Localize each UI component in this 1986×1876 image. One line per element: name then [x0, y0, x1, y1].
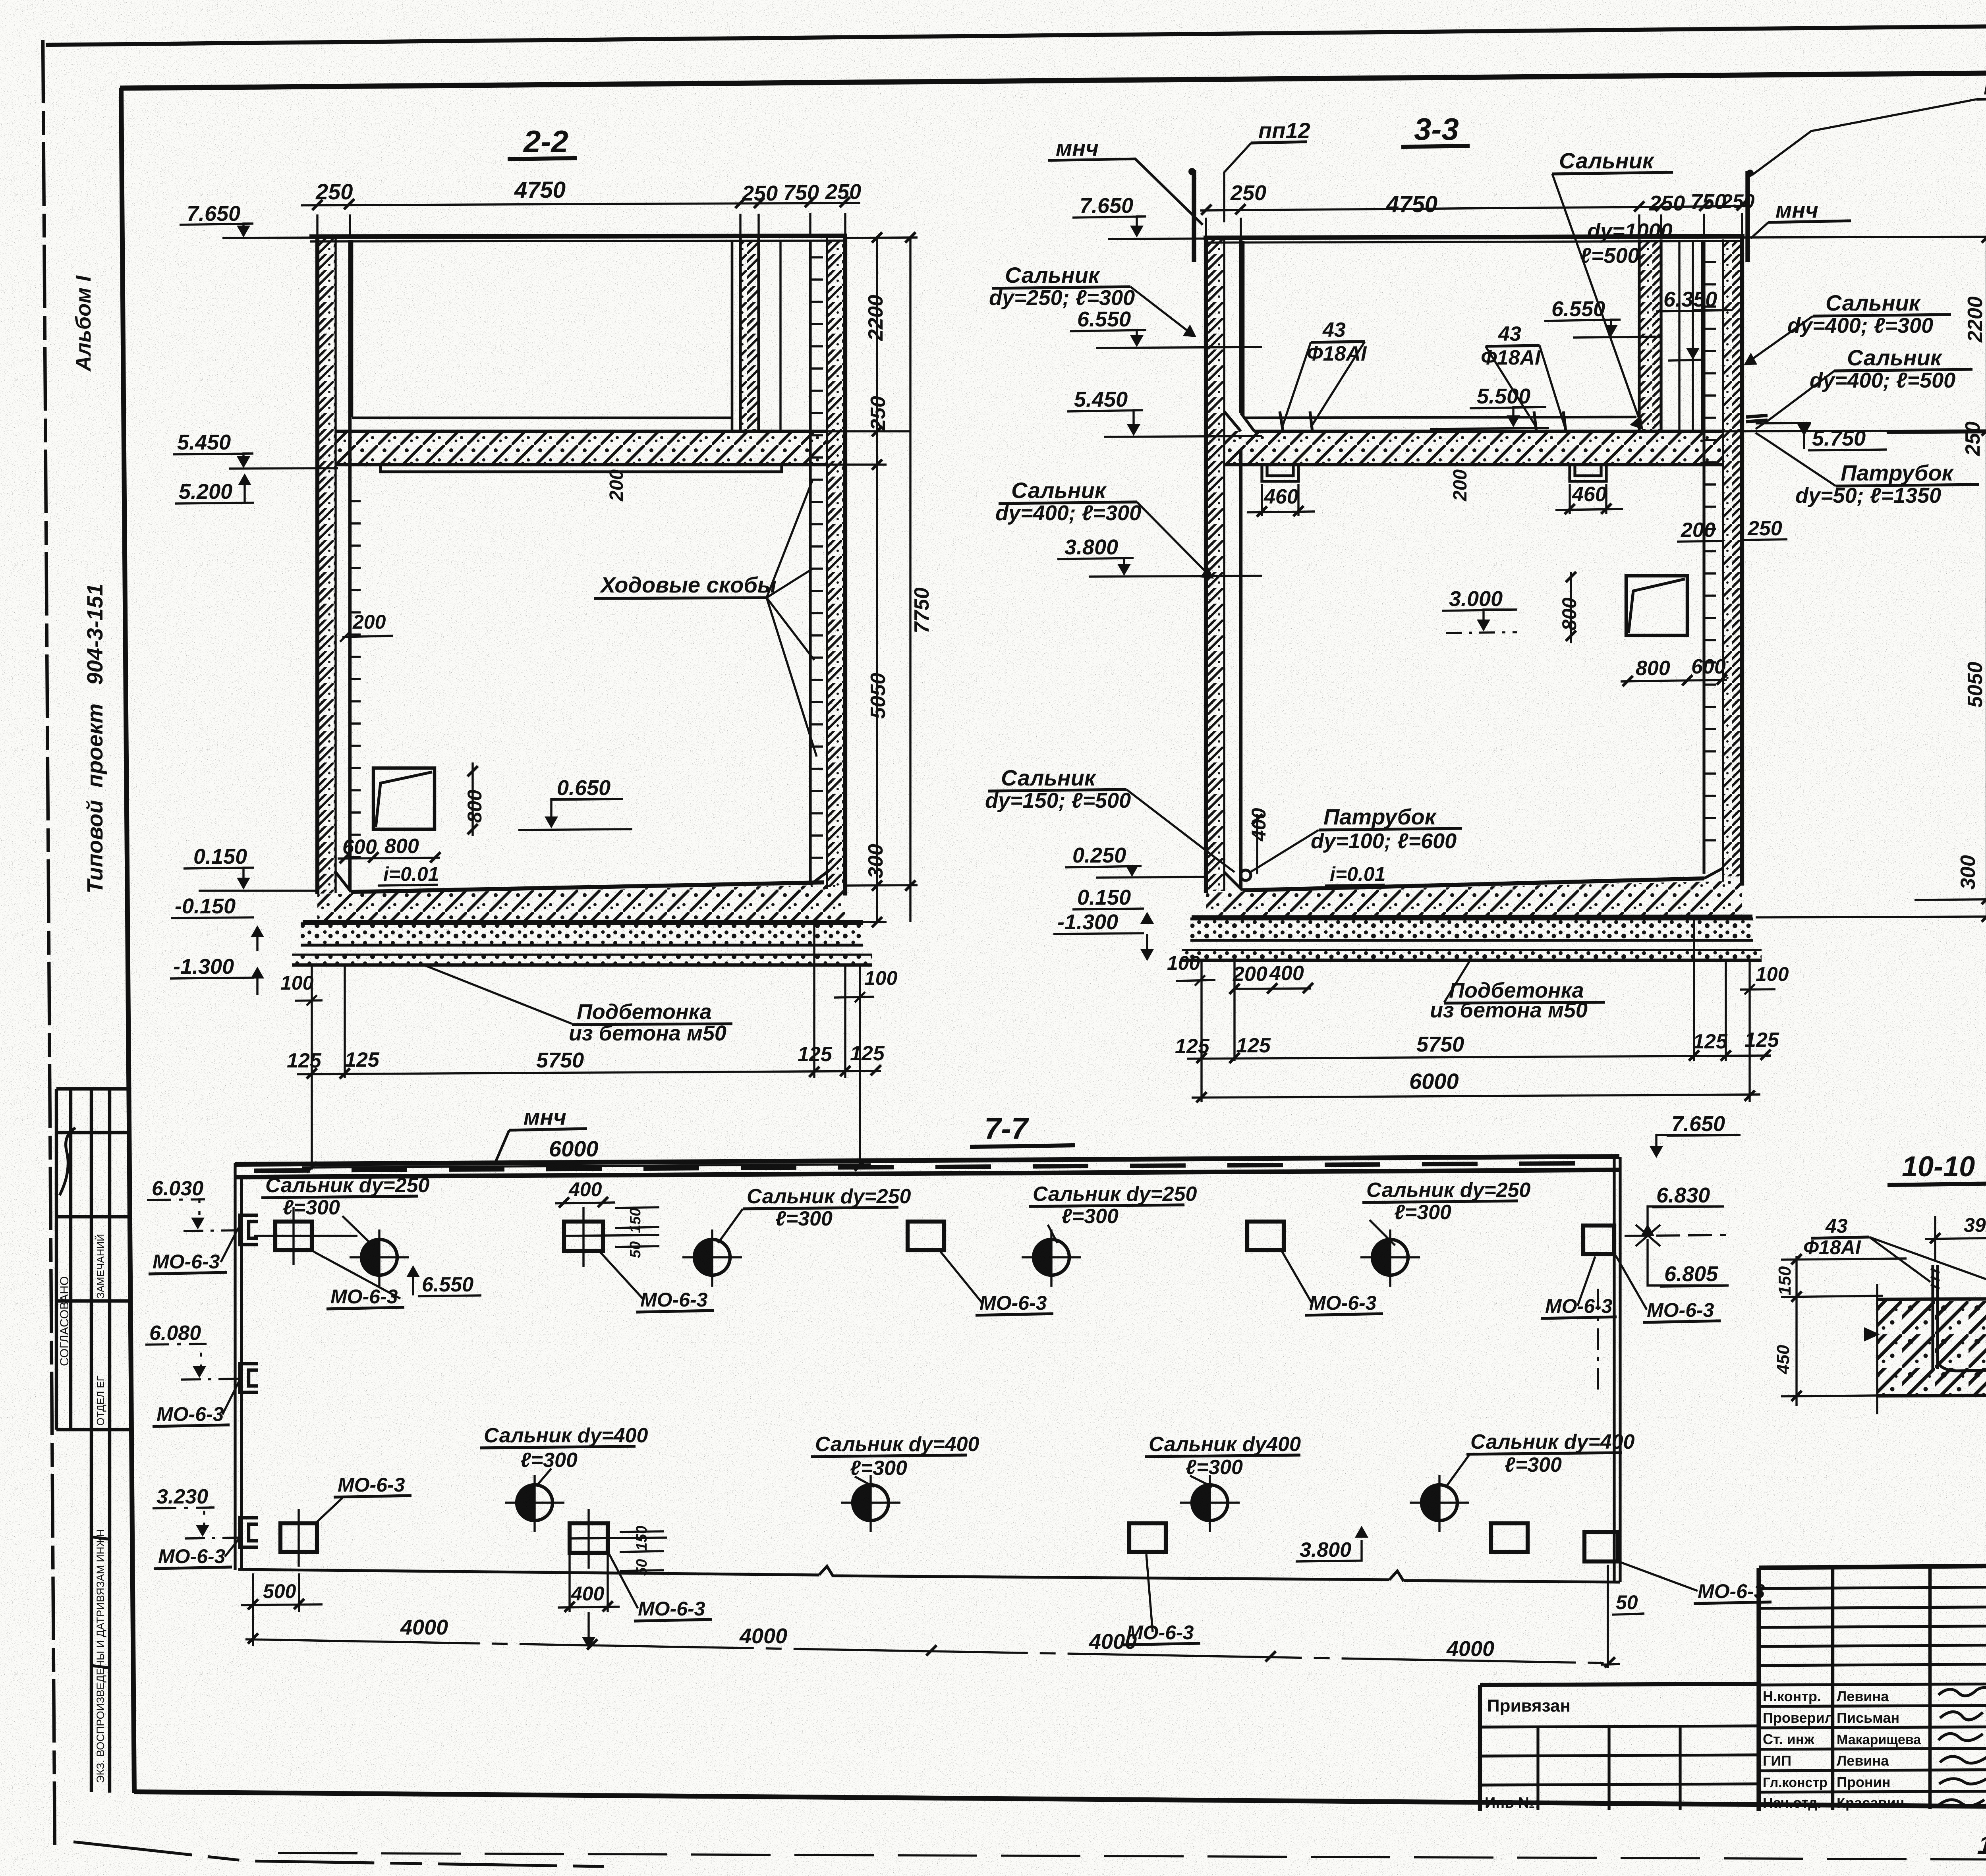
slab: [1877, 1299, 1986, 1396]
right edge square top: [1583, 1226, 1614, 1254]
left embed bracket 3: [240, 1518, 258, 1547]
detail vertical dim 800 rotated: [1570, 572, 1572, 643]
tank roof line: [1204, 236, 1745, 238]
lean concrete layer 1: [1190, 919, 1753, 940]
top row circles: [361, 1239, 397, 1275]
inner frame left line: [121, 88, 134, 1793]
left wall rung ticks: [350, 501, 361, 857]
MNCh pipe mark: [1192, 170, 1196, 262]
right wall: [827, 240, 845, 887]
bottom slab: [317, 885, 845, 921]
bottom slab: [1206, 881, 1742, 916]
left embed bracket 1: [240, 1215, 258, 1245]
signature squiggle: [60, 1128, 75, 1195]
right vertical dim line 1: [876, 237, 878, 922]
right wall ladder rungs: [1705, 262, 1716, 840]
pipe line in shaft: [779, 240, 781, 431]
sloped floor line: [1242, 878, 1704, 890]
middle table columns: [1833, 1568, 1986, 1810]
sheet outer border bottom edge (faint): [278, 1853, 1986, 1862]
inner partition wall: [740, 240, 759, 431]
elevation 5.750 right: [1797, 424, 1811, 436]
double tick at wall right: [1746, 415, 1768, 422]
embed pocket left: [1262, 465, 1298, 481]
left embed bracket 2: [240, 1364, 258, 1392]
outlet detail box: [373, 768, 435, 829]
left edge double line: [235, 1163, 241, 1570]
axis dash line right: [1597, 1289, 1599, 1393]
right wall ladder rungs: [811, 257, 823, 858]
lean concrete layer 1: [301, 924, 863, 945]
intermediate slab: [336, 431, 827, 465]
sheet outer border top edge: [46, 21, 1986, 45]
PP12 pipe mark right: [1745, 171, 1750, 262]
bottom row squares: [280, 1523, 317, 1552]
shaft lining lines: [1679, 241, 1693, 431]
anchor bar 1: [1933, 1265, 1938, 1369]
title block outer top line: [1759, 1561, 1986, 1568]
floor haunches: [336, 872, 827, 892]
tank roof line: [309, 236, 847, 237]
right vertical dim line 2: [909, 237, 911, 922]
inner frame bottom line: [134, 1792, 1986, 1811]
middle table left edge: [1756, 1568, 1761, 1811]
inner frame top line: [120, 68, 1986, 88]
middle table name rows: [1759, 1684, 1986, 1792]
outlet detail box 3-3: [1626, 576, 1687, 635]
shaft hatched strip: [1639, 241, 1661, 431]
hook in slab: [1938, 1362, 1986, 1371]
middle table upper empty rows: [1759, 1587, 1986, 1666]
lean concrete layer 2: [1182, 951, 1762, 959]
sloped floor line: [351, 882, 824, 892]
left wall: [317, 238, 336, 894]
right wall: [1723, 241, 1742, 876]
upper compartment lining: [352, 240, 732, 430]
embed pocket right: [1570, 465, 1606, 481]
slab level arrows: [1864, 1327, 1880, 1341]
upper compartment lining: [1243, 240, 1702, 430]
lean concrete layer 2: [292, 955, 872, 964]
detail vertical dim 800: [471, 762, 473, 836]
lower sidebar tick lines: [91, 1537, 110, 1668]
top dim line: [1200, 206, 1752, 210]
extension lines below 3-3: [1202, 918, 1750, 1102]
right edge square bottom: [1584, 1532, 1618, 1561]
privyazan table: [1480, 1684, 1759, 1685]
right edge double line: [1614, 1157, 1620, 1582]
left dims 150 450: [1795, 1256, 1797, 1406]
top dimension line: [301, 203, 860, 205]
right vertical dim line 1 (3-3): [1986, 238, 1986, 918]
bottom edge with break marks: [238, 1566, 1620, 1582]
top row squares: [275, 1222, 312, 1250]
approval stamp table: [56, 1089, 132, 1430]
left wall corbel: [1224, 411, 1254, 431]
top waterproofed edge band: [235, 1156, 1619, 1164]
torn corner line bottom-left: [73, 1842, 604, 1866]
intermediate slab: [1224, 431, 1723, 465]
extension lines below: [312, 923, 860, 1170]
bottom row circles: [517, 1485, 553, 1521]
left wall: [1206, 239, 1224, 891]
sheet outer border left edge: [43, 40, 55, 1851]
signatures squiggles: [1938, 1687, 1986, 1696]
lower sidebar text column: [91, 1430, 110, 1793]
overall 4000 dim line: [245, 1639, 1612, 1663]
